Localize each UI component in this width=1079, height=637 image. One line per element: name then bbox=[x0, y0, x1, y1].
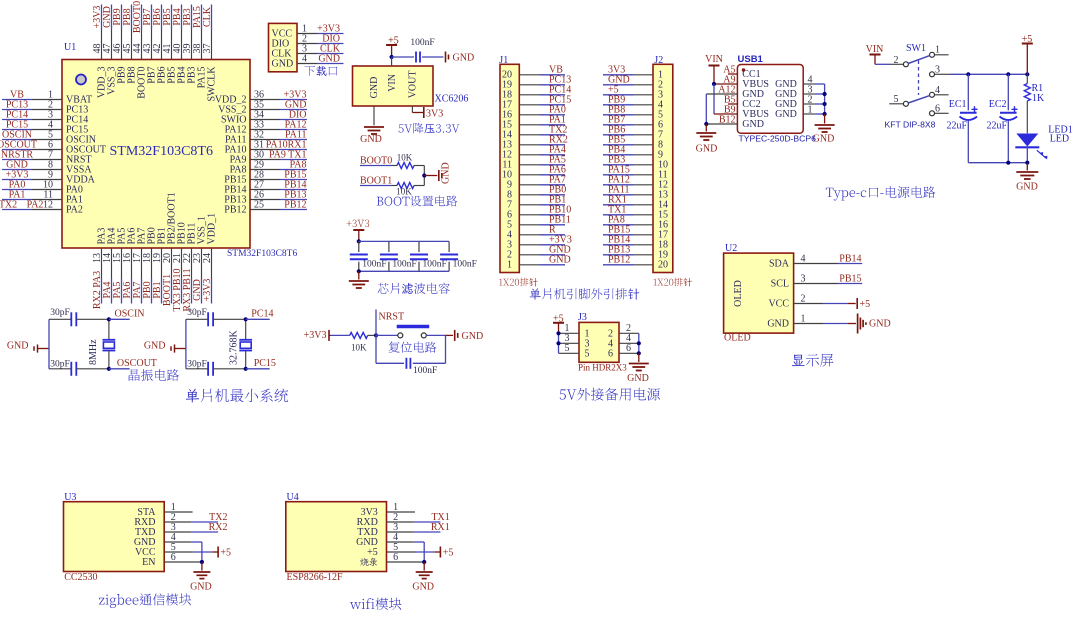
wire VBUS A9 bbox=[712, 82, 738, 86]
J2 pin number 9 bbox=[658, 150, 663, 161]
switch SW1 contact 3 bbox=[930, 64, 950, 77]
capacitor EC1 22uF bbox=[946, 74, 977, 162]
ground earth U3 bbox=[190, 562, 212, 592]
stub CC2 B5 bbox=[728, 103, 737, 105]
U1 pin name PB14 bbox=[224, 185, 246, 196]
wire U1 pin 4 net PC15 bbox=[2, 120, 62, 131]
wire download port pin 2 net DIO bbox=[297, 34, 344, 45]
U1 pin name SWCLK bbox=[207, 66, 218, 102]
resistor R1 1K bbox=[1024, 74, 1045, 133]
J2 pin number 12 bbox=[658, 180, 668, 191]
wire U1 pin 2 net PC13 bbox=[2, 100, 62, 111]
wire GND bus right of USB1 bbox=[823, 84, 827, 116]
switch SW1 designator bbox=[906, 43, 926, 54]
J2 pin number 10 bbox=[658, 160, 668, 171]
power tap +5 at U4 bbox=[440, 547, 453, 559]
wire U1 pin 38 net PA15 bbox=[192, 5, 203, 60]
wire J1 pin 9 net PA7 bbox=[519, 174, 566, 185]
svg-text:+5: +5 bbox=[367, 547, 378, 558]
U1 pin name VSS_2 bbox=[218, 105, 246, 116]
wire U1 pin 35 net GND bbox=[250, 100, 307, 111]
wire GND bus J3 right bbox=[637, 333, 641, 355]
power tap +5 at U3 bbox=[218, 547, 231, 559]
svg-text:30pF: 30pF bbox=[187, 359, 207, 369]
wire U4 pin 2 net TX1 bbox=[387, 512, 450, 523]
capacitor C2 100nF bbox=[380, 241, 417, 271]
wire J1 pin 7 net PB1 bbox=[519, 194, 566, 205]
capacitor C4 100nF bbox=[440, 241, 477, 271]
svg-text:+3V3: +3V3 bbox=[202, 279, 213, 302]
wire U1 pin 29 net PA8 bbox=[250, 160, 307, 171]
svg-text:TX2: TX2 bbox=[0, 200, 17, 211]
U1 pin name PC14 bbox=[66, 115, 88, 126]
J2 pin number 5 bbox=[658, 110, 663, 121]
U1 pin name PA2 bbox=[66, 205, 83, 216]
wire J1 pin 5 net PB11 bbox=[519, 214, 571, 225]
switch SW1 contact 5 bbox=[889, 94, 908, 107]
U1 pin name VSS_1 bbox=[197, 216, 208, 244]
node BOOT0 net label bbox=[360, 155, 392, 166]
wire download port pin 4 net GND bbox=[297, 54, 344, 65]
wire J2 pin 4 net PB9 bbox=[603, 94, 653, 105]
wire U1 pin 18 net PB0 bbox=[142, 248, 153, 304]
J2 pin number 1 bbox=[658, 70, 663, 81]
wire U1 pin 7 net NRSTR bbox=[1, 150, 62, 161]
U1 pin name PB15 bbox=[224, 175, 246, 186]
wire U1 pin 36 net +3V3 bbox=[250, 90, 307, 101]
U3 pin number 1 bbox=[171, 502, 176, 513]
svg-text:U1: U1 bbox=[64, 42, 76, 53]
wire U1 pin 20 net BOOT1 bbox=[162, 248, 173, 306]
wire U1 pin 16 net PA6 bbox=[122, 248, 133, 304]
wire bottom rail bbox=[359, 270, 449, 272]
USB1 pin A9 name VBUS bbox=[723, 75, 769, 91]
label BOOT设置电路 bbox=[377, 196, 458, 207]
wire J1 pin 15 net PA1 bbox=[519, 114, 566, 125]
USB1 pin B5 name CC2 bbox=[724, 95, 761, 111]
J1 pin number 8 bbox=[507, 190, 512, 201]
wire +3V3 to resistor bbox=[331, 334, 350, 336]
svg-text:30pF: 30pF bbox=[187, 308, 207, 318]
wire U1 pin 21 net TX3 PB10 bbox=[172, 248, 183, 312]
U1 pin name PA6 bbox=[127, 228, 138, 245]
wire BOOT0 to resistor bbox=[391, 165, 397, 167]
wire J1 pin 8 net PB0 bbox=[519, 184, 566, 195]
U1 pin name OSCOUT bbox=[66, 145, 106, 156]
wire U1 pin 6 net OSCOUT bbox=[0, 140, 62, 151]
J1 pin number 13 bbox=[502, 140, 512, 151]
U4 pin number 1 bbox=[393, 502, 398, 513]
wire U1 pin 42 net PB6 bbox=[152, 5, 163, 60]
wire U1 pin 19 net PB1 bbox=[152, 248, 163, 304]
wire J3 pin 3 bbox=[559, 333, 580, 344]
J1 pin number 20 bbox=[502, 70, 512, 81]
connector USB1 body bbox=[737, 65, 803, 134]
J1 pin number 14 bbox=[502, 130, 512, 141]
wire left vertical crystal Y1 bbox=[48, 319, 50, 369]
label Pin HDR2X3 bbox=[578, 362, 627, 372]
capacitor 30pF bottom crystal Y2 bbox=[186, 359, 246, 375]
U3 pin name TXD bbox=[135, 527, 156, 538]
J3 pin name 2 bbox=[608, 329, 613, 340]
node NRST bbox=[374, 310, 404, 338]
wire J2 pin 2 net GND bbox=[603, 74, 653, 85]
power tap +5 at U2 bbox=[857, 298, 870, 310]
wire U1 pin 8 net GND bbox=[2, 160, 62, 171]
module U4 designator bbox=[287, 492, 299, 503]
wire U1 pin 27 net PB14 bbox=[250, 180, 307, 191]
wire U1 pin 31 net PA10RX1 bbox=[250, 140, 307, 151]
connector J1 designator bbox=[499, 55, 508, 66]
U4 pin number 4 bbox=[393, 532, 398, 543]
ground GND tap reset bbox=[455, 330, 483, 342]
ground earth USB right bbox=[813, 114, 835, 145]
wire U1 pin 40 net PB4 bbox=[172, 5, 183, 60]
wire J1 pin 10 net PA6 bbox=[519, 164, 566, 175]
J2 pin number 19 bbox=[658, 250, 668, 261]
wire USB1 pin 1 GND bbox=[775, 105, 824, 121]
J1 pin number 15 bbox=[502, 120, 512, 131]
connector J3 body bbox=[579, 322, 619, 362]
U3 pin number 5 bbox=[171, 542, 176, 553]
svg-text:EC2: EC2 bbox=[989, 99, 1007, 110]
wire U1 pin 17 net PA7 bbox=[132, 248, 143, 304]
svg-text:PC15: PC15 bbox=[254, 358, 276, 369]
wire U2 GND to tap bbox=[794, 323, 856, 325]
svg-text:PB14: PB14 bbox=[839, 254, 861, 265]
ground earth power circuit bbox=[1016, 163, 1038, 193]
wire U1 pin 41 net PB5 bbox=[162, 5, 173, 60]
svg-text:GND: GND bbox=[369, 77, 380, 99]
wire J1 pin 14 net TX2 bbox=[519, 124, 567, 135]
wire U1 pin 11 net PA1 bbox=[2, 190, 62, 201]
label 1X20排针 J1 bbox=[499, 278, 538, 287]
junction dot bottom rail bbox=[357, 269, 361, 273]
capacitor 30pF top crystal Y1 bbox=[49, 308, 109, 326]
U1 pin name PA8 bbox=[230, 165, 247, 176]
U4 pin name RXD bbox=[357, 517, 378, 528]
wire +5 to cap and gnd bbox=[390, 55, 444, 59]
U1 pin name PB5 bbox=[167, 67, 178, 84]
J2 pin number 3 bbox=[658, 90, 663, 101]
svg-text:6: 6 bbox=[608, 349, 613, 360]
connector J2 1X20 body bbox=[653, 64, 673, 272]
USB1 pin B12 name GND bbox=[719, 115, 764, 131]
wire U1 pin 45 net PB8 bbox=[122, 5, 133, 60]
U4 pin name 烧录 bbox=[360, 558, 377, 566]
U1 pin name PB10 bbox=[177, 222, 188, 244]
wire left vertical crystal Y2 bbox=[185, 319, 187, 369]
wire U2 pin 1 GND bbox=[767, 314, 805, 330]
switch SW1 dashed link bbox=[918, 61, 920, 96]
wire U2 pin 3 SCL bbox=[771, 274, 863, 290]
wire U1 pin 9 net +3V3 bbox=[2, 170, 62, 181]
wire U3 pin 2 net TX2 bbox=[164, 512, 227, 523]
wire joining resistors bbox=[414, 166, 424, 186]
svg-text:ESP8266-12F: ESP8266-12F bbox=[287, 572, 344, 583]
switch SW1 contact 6 bbox=[930, 103, 949, 116]
J1 pin number 16 bbox=[502, 110, 512, 121]
svg-text:OLED: OLED bbox=[733, 280, 744, 307]
U1 pin name VBAT bbox=[66, 95, 92, 106]
U1 pin name PB0 bbox=[147, 227, 158, 244]
wire USB1 pin 4 GND bbox=[775, 75, 824, 91]
label 单片机引脚外引排针 bbox=[530, 288, 640, 299]
label CC2530 bbox=[64, 572, 97, 583]
wire J1 pin 4 net R bbox=[519, 224, 565, 235]
label 5V降压3.3V bbox=[399, 123, 460, 134]
U1 pin name PC15 bbox=[66, 125, 88, 136]
wire U1 pin 22 net RX3 PB11 bbox=[182, 248, 193, 312]
wire U1 pin 30 net PA9 TX1 bbox=[250, 150, 307, 161]
wire U1 pin 47 net GND bbox=[102, 5, 113, 60]
wire J2 pin 1 net 3V3 bbox=[603, 64, 653, 75]
crystal 32.768K crystal Y2 bbox=[229, 319, 253, 369]
wire J2 pin 15 net TX1 bbox=[603, 204, 653, 215]
svg-text:PB12: PB12 bbox=[608, 254, 630, 265]
connector download port body bbox=[269, 23, 298, 71]
J2 pin number 6 bbox=[658, 120, 663, 131]
wire U1 pin 1 net VB bbox=[2, 90, 62, 101]
download port pin name VCC bbox=[272, 29, 293, 40]
U3 pin number 4 bbox=[171, 532, 176, 543]
wire J2 pin 7 net PB6 bbox=[603, 124, 653, 135]
svg-text:100nF: 100nF bbox=[453, 260, 477, 270]
U1 pin name PB12 bbox=[224, 205, 246, 216]
wire J2 pin 11 net PA15 bbox=[603, 164, 653, 175]
wire to GND tap bbox=[424, 175, 437, 177]
svg-text:+3V3: +3V3 bbox=[304, 330, 327, 341]
power port +3V3 filter bbox=[347, 220, 370, 242]
label 单片机最小系统 bbox=[186, 389, 289, 403]
label 5V外接备用电源 bbox=[560, 388, 660, 401]
svg-text:GND: GND bbox=[318, 54, 340, 65]
svg-text:5: 5 bbox=[585, 349, 590, 360]
svg-text:RX1: RX1 bbox=[431, 522, 450, 533]
wire U3 pin 4 GND bbox=[164, 542, 202, 562]
wire U1 pin 14 net PA4 bbox=[102, 248, 113, 304]
svg-text:RX2: RX2 bbox=[209, 522, 228, 533]
U3 pin number 2 bbox=[171, 512, 176, 523]
wire U1 pin 48 net +3V3 bbox=[92, 5, 103, 60]
svg-text:CLK: CLK bbox=[202, 6, 213, 27]
wire VIN to SW1 pin 2 bbox=[875, 63, 903, 65]
U1 pin name PA5 bbox=[117, 228, 128, 245]
svg-text:PC14: PC14 bbox=[251, 309, 273, 320]
wire U1 pin 3 net PC14 bbox=[2, 110, 62, 121]
svg-text:STM32F103C8T6: STM32F103C8T6 bbox=[110, 144, 213, 159]
ground earth below XC6206 bbox=[360, 127, 384, 145]
wire USB1 pin 3 GND bbox=[775, 85, 824, 101]
capacitor 100nF input bbox=[410, 38, 434, 63]
ground GND tap at input cap bbox=[446, 52, 475, 64]
svg-text:10K: 10K bbox=[397, 153, 413, 163]
J2 pin number 14 bbox=[658, 200, 668, 211]
wire U1 pin 43 net PB7 bbox=[142, 5, 153, 60]
svg-text:4: 4 bbox=[935, 85, 940, 96]
J1 pin number 6 bbox=[507, 210, 512, 221]
wire J2 pin 13 net PA11 bbox=[603, 184, 653, 195]
svg-text:GND: GND bbox=[144, 340, 166, 351]
svg-text:22uF: 22uF bbox=[986, 121, 1007, 132]
J1 pin number 4 bbox=[507, 230, 512, 241]
ground earth J3 bbox=[627, 353, 649, 384]
wire power rail from SW1 pin3 bbox=[949, 72, 1029, 76]
module U4 body bbox=[286, 502, 387, 572]
wire BOOT1 to resistor bbox=[391, 185, 397, 187]
U1 pin name PC13 bbox=[66, 105, 88, 116]
wire USB1 pin 2 GND bbox=[775, 95, 824, 111]
J1 pin number 17 bbox=[502, 100, 512, 111]
label TYPEC-250D-BCP6 bbox=[739, 134, 817, 144]
J2 pin number 11 bbox=[658, 170, 668, 181]
svg-text:6: 6 bbox=[626, 343, 631, 354]
U1 pin name VDDA bbox=[66, 175, 96, 186]
U4 pin name TXD bbox=[357, 527, 378, 538]
svg-text:100nF: 100nF bbox=[413, 366, 437, 376]
label 晶振电路 bbox=[129, 369, 179, 381]
junction dot top rail bbox=[357, 239, 361, 243]
wire J1 pin 2 net GND bbox=[519, 244, 570, 255]
connector J3 designator bbox=[578, 312, 587, 323]
wire U3 pin 6 bbox=[164, 560, 204, 564]
svg-text:100nF: 100nF bbox=[392, 260, 416, 270]
U3 pin name RXD bbox=[134, 517, 155, 528]
XC6206 pin name VOUT bbox=[408, 71, 419, 99]
wire U4 pin 4 GND bbox=[387, 542, 425, 562]
U3 pin name EN bbox=[142, 557, 155, 568]
connector J1 1X20 body bbox=[500, 64, 519, 272]
svg-text:EN: EN bbox=[142, 557, 155, 568]
node PC15 bbox=[244, 358, 276, 371]
power port +5 rail bbox=[1022, 34, 1033, 74]
svg-text:J3: J3 bbox=[578, 312, 587, 323]
wire J3 pin 4 bbox=[619, 333, 639, 344]
XC6206 pin name VIN bbox=[387, 74, 398, 92]
switch SW1 contact 4 bbox=[930, 85, 949, 98]
U1 pin name PB9 bbox=[117, 67, 128, 84]
wire J2 pin 14 net RX1 bbox=[603, 194, 653, 205]
svg-text:3V3: 3V3 bbox=[426, 108, 443, 119]
svg-text:100nF: 100nF bbox=[362, 260, 386, 270]
svg-text:GND: GND bbox=[7, 340, 29, 351]
svg-text:BOOT0: BOOT0 bbox=[360, 155, 392, 166]
svg-text:GND: GND bbox=[742, 119, 764, 130]
J1 pin number 3 bbox=[507, 240, 512, 251]
svg-text:GND: GND bbox=[1016, 182, 1038, 193]
node PC14 bbox=[244, 309, 274, 322]
U4 pin number 3 bbox=[393, 522, 398, 533]
svg-text:USB1: USB1 bbox=[738, 54, 764, 65]
U1 pin name PA4 bbox=[107, 228, 118, 245]
U1 pin name PB8 bbox=[127, 67, 138, 84]
U3 pin name GND bbox=[134, 537, 156, 548]
U1 STM32F103C8T6 MCU body bbox=[62, 60, 297, 260]
display U2 designator bbox=[725, 243, 737, 254]
wire U2 pin 4 SDA bbox=[769, 254, 862, 270]
svg-text:3: 3 bbox=[935, 64, 940, 75]
label ESP8266-12F bbox=[287, 572, 344, 583]
svg-text:GND: GND bbox=[412, 581, 434, 592]
label 显示屏 bbox=[792, 354, 833, 367]
resistor 10K upper bbox=[397, 153, 414, 169]
wire J2 pin 17 net PB15 bbox=[603, 224, 653, 235]
module U3 designator bbox=[64, 492, 76, 503]
label KFT DIP-8X8 bbox=[885, 120, 936, 130]
svg-text:37: 37 bbox=[202, 44, 213, 54]
capacitor EC2 22uF bbox=[986, 74, 1017, 162]
J3 pin name 6 bbox=[608, 349, 613, 360]
svg-text:10K: 10K bbox=[351, 343, 367, 353]
switch SW1 contact 1 bbox=[930, 45, 949, 58]
wire GND pin to ground bbox=[373, 106, 375, 125]
wire U1 pin 23 net GND bbox=[192, 248, 203, 304]
wire J2 pin 6 net PB7 bbox=[603, 114, 653, 125]
svg-text:1: 1 bbox=[507, 260, 512, 271]
svg-text:GND: GND bbox=[441, 162, 452, 184]
J2 pin number 17 bbox=[658, 230, 668, 241]
capacitor 30pF top crystal Y2 bbox=[186, 308, 246, 326]
module U3 body bbox=[64, 502, 165, 572]
svg-text:100nF: 100nF bbox=[423, 260, 447, 270]
wire J3 pin 6 bbox=[619, 343, 639, 354]
J2 pin number 13 bbox=[658, 190, 668, 201]
wire +5 bus J3 left bbox=[556, 331, 560, 353]
U1 pin name PB1 bbox=[157, 227, 168, 244]
svg-text:STM32F103C8T6: STM32F103C8T6 bbox=[227, 249, 297, 259]
J1 pin number 7 bbox=[507, 200, 512, 211]
svg-text:NRST: NRST bbox=[379, 312, 405, 323]
node BOOT1 net label bbox=[360, 175, 392, 186]
wire U4 pin 5 +5 bbox=[387, 551, 440, 553]
USB1 pin B9 name VBUS bbox=[724, 105, 769, 121]
wire J3 pin 5 bbox=[559, 343, 580, 354]
label ('zigbee通信模块', 604.5) bbox=[99, 593, 191, 608]
svg-text:5: 5 bbox=[565, 343, 570, 354]
wire U4 pin 1 bbox=[387, 511, 415, 513]
label 下载口 bbox=[305, 66, 338, 76]
wire J1 pin 3 net +3V3 bbox=[519, 234, 572, 245]
svg-text:GND: GND bbox=[813, 134, 835, 145]
ground earth U4 bbox=[412, 562, 434, 592]
svg-text:VIN: VIN bbox=[387, 74, 398, 92]
wire J2 pin 12 net PA12 bbox=[603, 174, 653, 185]
wire J1 pin 13 net RX2 bbox=[519, 134, 568, 145]
svg-text:OLED: OLED bbox=[724, 333, 751, 344]
J3 pin name 3 bbox=[585, 339, 590, 350]
wire U1 pin 46 net PB9 bbox=[112, 5, 123, 60]
download port pin name DIO bbox=[272, 39, 290, 50]
J1 pin number 2 bbox=[507, 250, 512, 261]
U1 pin name PA12 bbox=[225, 125, 247, 136]
U1 pin name VSSA bbox=[66, 165, 92, 176]
J2 pin number 2 bbox=[658, 80, 663, 91]
J1 pin number 19 bbox=[502, 80, 512, 91]
pushbutton reset bbox=[397, 327, 430, 338]
U1 pin name VSS_3 bbox=[107, 67, 118, 95]
svg-text:GND: GND bbox=[627, 373, 649, 384]
U4 pin number 5 bbox=[393, 542, 398, 553]
U1 pin name PA3 bbox=[97, 228, 108, 245]
power port VIN at USB1 bbox=[705, 54, 723, 84]
wire U2 pin 2 VCC bbox=[768, 294, 805, 310]
svg-text:GND: GND bbox=[775, 109, 797, 120]
U1 pin name PA7 bbox=[137, 228, 148, 245]
U1 pin name PB6 bbox=[157, 67, 168, 84]
U3 pin name STA bbox=[137, 507, 156, 518]
switch SW1 arm 2-1 bbox=[908, 56, 930, 64]
wire U3 pin 5 +5 bbox=[164, 551, 217, 553]
